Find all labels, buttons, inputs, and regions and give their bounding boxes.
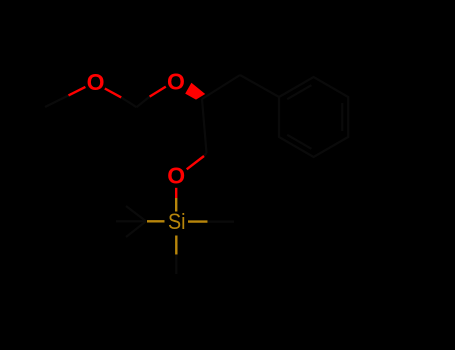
benzene aromatic inner line upper-left edge	[287, 85, 311, 99]
wire: gold half of Si right methyl bond	[188, 220, 208, 222]
tert-butyl quaternary carbon methyl down-left	[126, 221, 146, 237]
benzene ring (dark hexagon)	[279, 77, 348, 157]
wire: dark bond O1 to acetal CH2 vertex (carbon half)	[121, 97, 136, 107]
stereo wedge bond O2 to C1 (red solid wedge)	[185, 83, 205, 100]
wire: dark bond acetal CH2 vertex to O2 (carbon half)	[137, 97, 150, 108]
wire: dark bond O1 to methyl CH3 (carbon half)	[45, 95, 69, 107]
wire: gold half of Si left bond to tert-butyl	[147, 220, 165, 222]
benzene aromatic inner line lower-left edge	[287, 135, 311, 149]
wire: dark bond C1 to C2 (vertical)	[202, 99, 207, 153]
wire: gold half of Si bottom methyl bond	[175, 236, 177, 255]
wire: dark bond benzylic CH2 down-right to phenyl ipso carbon	[240, 75, 279, 97]
benzene aromatic inner line right edge	[341, 103, 343, 131]
wire: dark half of Si right methyl bond	[208, 221, 234, 223]
svg-text:O: O	[87, 69, 105, 95]
wire: gold half of O3-Si bond	[175, 198, 177, 212]
wire: dark bond C1 up-right to benzylic CH2	[202, 75, 240, 99]
svg-text:O: O	[167, 163, 185, 189]
tert-butyl quaternary carbon methyl up-left	[126, 206, 146, 221]
wire: dark half of Si bottom methyl bond	[175, 255, 177, 274]
tert-butyl quaternary carbon methyl left	[116, 220, 146, 222]
wire: dark half of bond C2 to O3	[204, 153, 207, 156]
svg-text:O: O	[167, 69, 185, 95]
svg-text:Si: Si	[168, 209, 186, 234]
wire: red half-bond O1 to methyl	[69, 87, 86, 96]
wire: red half-bond acetal CH2 to O2	[150, 87, 166, 97]
wire: red half of O3-Si bond	[175, 188, 177, 198]
wire: red half-bond O3 up-right to C2	[187, 156, 204, 169]
wire: red half-bond O1 to acetal CH2	[105, 89, 121, 98]
